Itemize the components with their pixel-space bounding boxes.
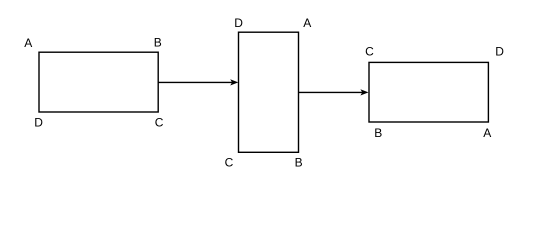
svg-text:A: A: [24, 36, 32, 50]
rectangle DABC (middle, tall): [239, 32, 299, 152]
svg-text:B: B: [295, 155, 303, 169]
svg-text:D: D: [495, 44, 504, 58]
svg-text:D: D: [234, 16, 243, 30]
wire arrow 2 (middle rect to right rect): [299, 91, 363, 93]
svg-text:A: A: [483, 126, 491, 140]
wire arrow 1 (left rect to middle rect): [158, 81, 232, 83]
svg-text:B: B: [154, 36, 162, 50]
svg-text:C: C: [155, 115, 164, 129]
svg-text:C: C: [365, 45, 374, 59]
svg-text:A: A: [303, 16, 311, 30]
rectangle ABCD (left, wide): [39, 52, 158, 112]
rectangle CDBA (right, wide): [369, 62, 488, 122]
svg-text:D: D: [34, 115, 43, 129]
svg-text:C: C: [225, 155, 234, 169]
svg-text:B: B: [374, 126, 382, 140]
